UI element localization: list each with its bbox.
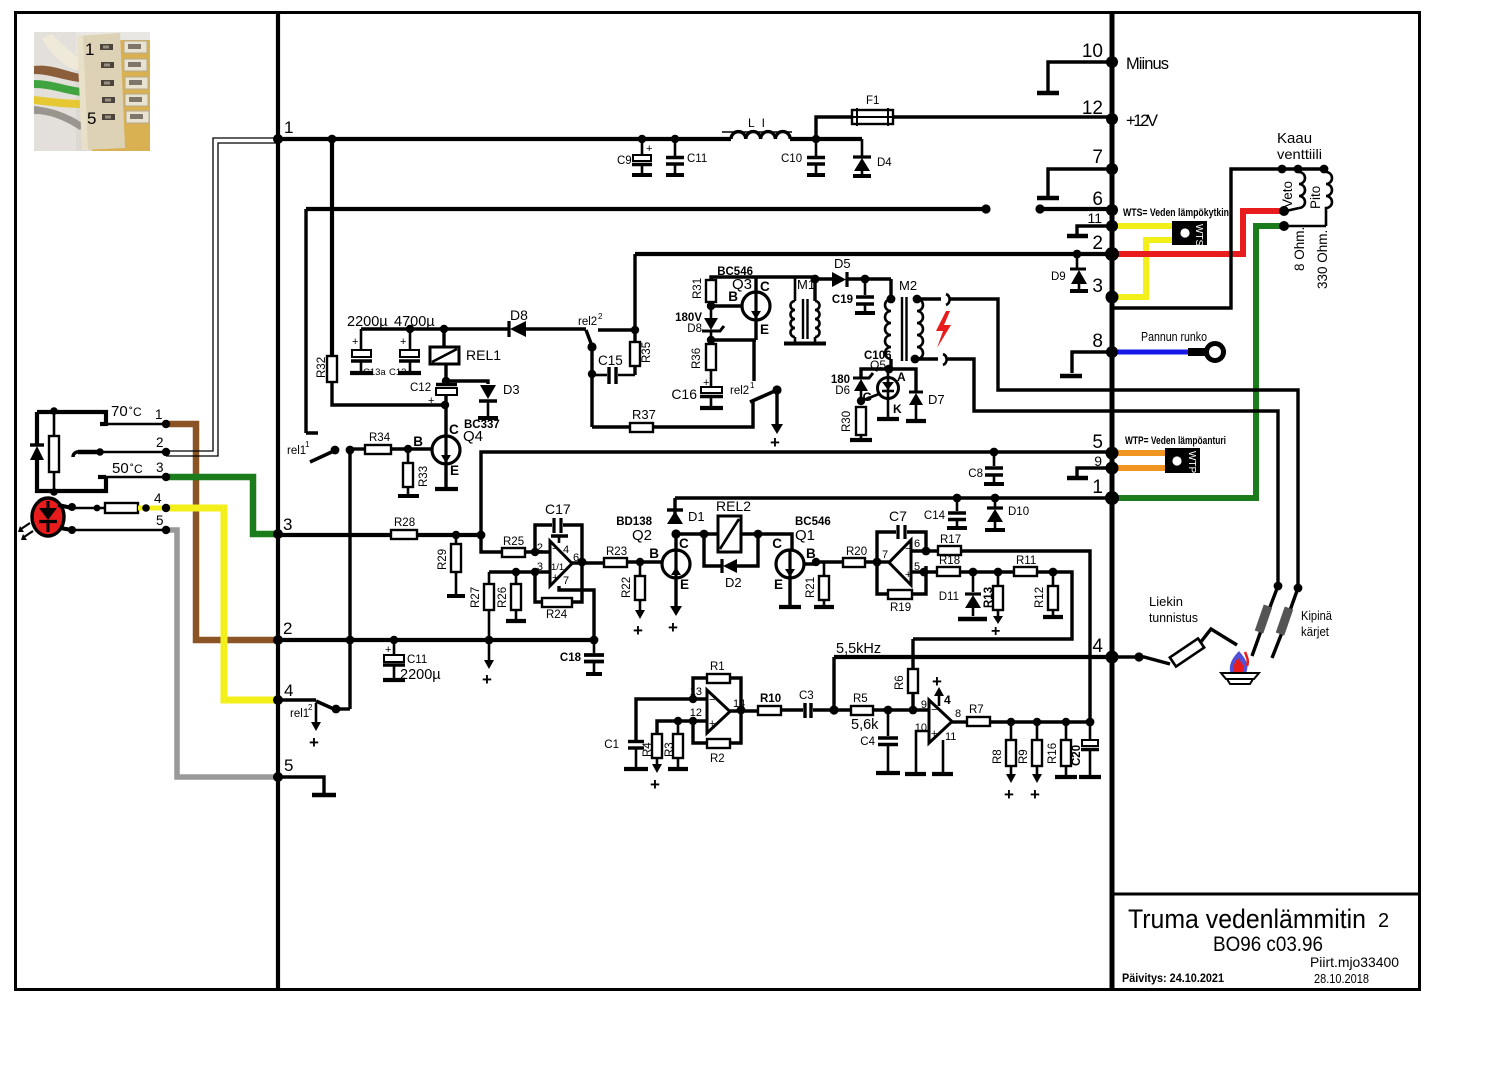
svg-text:˚C: ˚C <box>130 462 143 476</box>
svg-text:C18: C18 <box>560 652 582 664</box>
svg-text:R36: R36 <box>691 348 703 369</box>
svg-text:Q2: Q2 <box>632 527 652 544</box>
svg-text:+: + <box>552 572 558 584</box>
svg-text:C17: C17 <box>545 501 571 517</box>
svg-text:7: 7 <box>882 549 888 561</box>
svg-text:6: 6 <box>914 538 920 550</box>
svg-text:4: 4 <box>563 544 569 556</box>
svg-text:R24: R24 <box>546 609 568 621</box>
svg-text:+: + <box>428 395 434 407</box>
svg-text:D4: D4 <box>877 157 892 169</box>
svg-text:R10: R10 <box>760 693 781 705</box>
svg-text:R28: R28 <box>394 517 415 529</box>
svg-text:R6: R6 <box>894 675 906 690</box>
svg-text:R32: R32 <box>316 357 328 378</box>
svg-text:R5: R5 <box>853 693 868 705</box>
svg-text:+: + <box>633 621 643 640</box>
svg-text:1: 1 <box>305 440 310 449</box>
svg-text:70: 70 <box>111 403 128 420</box>
svg-text:tunnistus: tunnistus <box>1149 610 1198 625</box>
svg-text:R16: R16 <box>1047 743 1059 764</box>
svg-text:R27: R27 <box>470 587 482 608</box>
svg-text:1: 1 <box>85 40 94 59</box>
svg-text:R35: R35 <box>641 342 653 363</box>
svg-text:3: 3 <box>1092 276 1103 297</box>
svg-text:WTP= Veden lämpöanturi: WTP= Veden lämpöanturi <box>1125 435 1226 447</box>
svg-text:F1: F1 <box>866 95 879 107</box>
svg-text:R9: R9 <box>1018 749 1030 764</box>
svg-text:D10: D10 <box>1008 506 1029 518</box>
svg-text:−: − <box>931 704 937 716</box>
svg-text:−: − <box>709 694 715 706</box>
svg-text:11: 11 <box>945 731 956 743</box>
svg-text:C9: C9 <box>617 155 632 167</box>
svg-text:5: 5 <box>284 756 293 775</box>
svg-text:4: 4 <box>944 693 951 707</box>
svg-text:4: 4 <box>1092 636 1103 657</box>
svg-text:1: 1 <box>155 407 163 422</box>
svg-text:Veto: Veto <box>1280 181 1295 208</box>
svg-text:R31: R31 <box>692 278 704 299</box>
svg-text:+: + <box>650 775 660 794</box>
svg-text:R23: R23 <box>606 546 627 558</box>
svg-text:R4: R4 <box>642 742 654 757</box>
svg-text:11: 11 <box>1087 210 1102 226</box>
svg-text:2: 2 <box>598 312 603 321</box>
svg-text:rel2: rel2 <box>578 316 597 328</box>
svg-text:rel1: rel1 <box>290 708 309 720</box>
svg-text:C12: C12 <box>410 382 431 394</box>
svg-text:D7: D7 <box>928 392 945 407</box>
svg-text:+: + <box>646 143 652 155</box>
svg-text:+12V: +12V <box>1126 112 1158 130</box>
svg-text:5: 5 <box>1092 432 1103 453</box>
svg-text:rel1: rel1 <box>287 445 306 457</box>
svg-text:R7: R7 <box>969 704 984 716</box>
svg-text:2: 2 <box>308 703 313 712</box>
svg-text:1: 1 <box>1092 477 1103 498</box>
svg-text:8 Ohm.: 8 Ohm. <box>1292 227 1307 271</box>
svg-text:D11: D11 <box>939 591 959 603</box>
svg-text:BO96 c03.96: BO96 c03.96 <box>1213 933 1323 956</box>
svg-text:R17: R17 <box>940 534 961 546</box>
svg-text:D5: D5 <box>834 256 851 271</box>
svg-text:Kaau: Kaau <box>1277 130 1312 147</box>
svg-text:R37: R37 <box>632 407 656 422</box>
svg-text:WTS: WTS <box>1193 224 1204 247</box>
svg-text:C: C <box>760 279 770 294</box>
svg-text:+: + <box>931 728 937 740</box>
svg-text:rel2: rel2 <box>730 385 749 397</box>
svg-text:K: K <box>893 402 902 416</box>
svg-text:+: + <box>482 670 492 689</box>
svg-text:R29: R29 <box>437 549 449 570</box>
svg-text:˚C: ˚C <box>129 405 142 419</box>
svg-text:C7: C7 <box>889 508 907 524</box>
svg-text:50: 50 <box>112 460 129 477</box>
svg-text:R18: R18 <box>939 555 960 567</box>
svg-text:6: 6 <box>1092 189 1103 210</box>
svg-text:R19: R19 <box>890 602 911 614</box>
svg-text:R25: R25 <box>503 536 524 548</box>
svg-text:+: + <box>905 569 911 581</box>
svg-text:D8: D8 <box>687 323 702 335</box>
svg-text:8: 8 <box>955 708 961 720</box>
svg-text:R30: R30 <box>841 411 853 432</box>
svg-text:WTS= Veden lämpökytkin: WTS= Veden lämpökytkin <box>1123 207 1229 219</box>
svg-text:A: A <box>897 370 906 384</box>
svg-text:330 Ohm.: 330 Ohm. <box>1315 230 1330 289</box>
svg-text:12: 12 <box>1082 98 1103 119</box>
svg-text:+: + <box>1030 785 1040 804</box>
svg-text:E: E <box>760 322 769 337</box>
svg-text:+: + <box>309 733 319 752</box>
svg-text:R34: R34 <box>369 432 391 444</box>
svg-text:Q1: Q1 <box>795 527 815 544</box>
svg-text:D1: D1 <box>688 509 705 524</box>
svg-text:1: 1 <box>284 118 293 137</box>
svg-text:2200µ: 2200µ <box>400 667 441 683</box>
svg-text:D9: D9 <box>1051 271 1066 283</box>
svg-text:+: + <box>709 718 715 730</box>
svg-text:Truma vedenlämmitin: Truma vedenlämmitin <box>1128 904 1366 934</box>
svg-text:R11: R11 <box>1016 555 1036 567</box>
svg-text:2: 2 <box>1092 233 1103 254</box>
svg-text:C: C <box>772 536 782 551</box>
svg-text:R33: R33 <box>418 466 430 487</box>
svg-text:Q4: Q4 <box>463 428 483 445</box>
svg-text:D6: D6 <box>835 385 850 397</box>
svg-text:REL1: REL1 <box>466 347 501 363</box>
svg-text:Piirt.mjo33400: Piirt.mjo33400 <box>1310 954 1399 970</box>
svg-text:R13: R13 <box>983 587 995 608</box>
svg-text:C10: C10 <box>781 153 802 165</box>
svg-text:C13: C13 <box>389 367 406 378</box>
svg-text:R3: R3 <box>664 742 676 757</box>
svg-text:D8: D8 <box>510 307 528 323</box>
svg-text:C16: C16 <box>671 386 697 402</box>
svg-text:Q3: Q3 <box>732 276 752 293</box>
svg-text:C1: C1 <box>604 739 619 751</box>
svg-text:+: + <box>400 336 406 348</box>
svg-text:C4: C4 <box>860 736 875 748</box>
svg-text:2200µ: 2200µ <box>347 314 388 330</box>
svg-text:C15: C15 <box>598 353 623 368</box>
svg-text:3: 3 <box>156 460 164 475</box>
svg-text:D3: D3 <box>503 382 520 397</box>
svg-text:2: 2 <box>283 619 292 638</box>
svg-text:2: 2 <box>156 435 164 450</box>
svg-text:L I: L I <box>748 116 767 130</box>
svg-text:M2: M2 <box>899 278 917 293</box>
svg-text:4700µ: 4700µ <box>394 314 435 330</box>
svg-text:R22: R22 <box>621 577 633 598</box>
svg-text:Päivitys: 24.10.2021: Päivitys: 24.10.2021 <box>1122 971 1224 985</box>
svg-text:E: E <box>774 577 783 592</box>
svg-text:C: C <box>679 536 689 551</box>
svg-text:7: 7 <box>563 575 569 587</box>
svg-text:Pannun runko: Pannun runko <box>1141 330 1207 344</box>
svg-text:REL2: REL2 <box>716 498 751 514</box>
svg-text:+: + <box>352 336 358 348</box>
svg-text:3: 3 <box>283 515 292 534</box>
svg-text:7: 7 <box>1092 147 1103 168</box>
svg-text:−: − <box>552 543 558 555</box>
svg-text:C8: C8 <box>968 468 983 480</box>
svg-text:28.10.2018: 28.10.2018 <box>1314 971 1369 986</box>
svg-text:8: 8 <box>1092 331 1103 352</box>
svg-text:venttiili: venttiili <box>1277 146 1322 162</box>
svg-text:Miinus: Miinus <box>1126 55 1169 73</box>
svg-text:WTP: WTP <box>1186 451 1197 474</box>
svg-text:5,6k: 5,6k <box>851 717 879 733</box>
svg-text:B: B <box>649 546 659 561</box>
svg-text:4: 4 <box>154 491 162 506</box>
svg-text:Liekin: Liekin <box>1149 594 1183 609</box>
svg-text:R1: R1 <box>710 661 725 673</box>
svg-text:R20: R20 <box>846 546 867 558</box>
svg-text:C14: C14 <box>924 510 946 522</box>
svg-text:5: 5 <box>87 109 96 128</box>
svg-text:C19: C19 <box>832 294 853 306</box>
svg-text:R12: R12 <box>1034 587 1046 608</box>
svg-text:C11: C11 <box>687 153 707 165</box>
svg-text:+: + <box>770 433 780 452</box>
svg-text:+: + <box>932 672 942 691</box>
svg-text:C: C <box>449 422 459 437</box>
svg-text:5: 5 <box>156 513 164 528</box>
svg-text:R2: R2 <box>710 753 725 765</box>
svg-text:−: − <box>905 543 911 555</box>
svg-text:5,5kHz: 5,5kHz <box>836 641 881 657</box>
svg-text:kärjet: kärjet <box>1301 625 1329 639</box>
svg-text:C11: C11 <box>407 654 427 666</box>
svg-text:1: 1 <box>750 381 755 390</box>
svg-text:R8: R8 <box>992 749 1004 764</box>
svg-text:Pito: Pito <box>1308 186 1323 209</box>
svg-text:E: E <box>680 577 689 592</box>
svg-text:E: E <box>450 463 459 478</box>
svg-text:+: + <box>668 618 678 637</box>
svg-text:R26: R26 <box>497 587 509 608</box>
svg-text:2: 2 <box>1378 910 1389 932</box>
svg-text:C20: C20 <box>1071 745 1083 766</box>
svg-text:4: 4 <box>284 681 293 700</box>
svg-text:C3: C3 <box>799 690 814 702</box>
svg-text:+: + <box>1004 785 1014 804</box>
svg-text:R21: R21 <box>805 577 817 598</box>
svg-text:C13a: C13a <box>363 367 386 378</box>
svg-text:10: 10 <box>1082 41 1103 62</box>
svg-text:Kipinä: Kipinä <box>1301 609 1332 623</box>
svg-text:B: B <box>413 434 423 449</box>
svg-text:9: 9 <box>921 699 927 711</box>
svg-text:D2: D2 <box>725 575 742 590</box>
